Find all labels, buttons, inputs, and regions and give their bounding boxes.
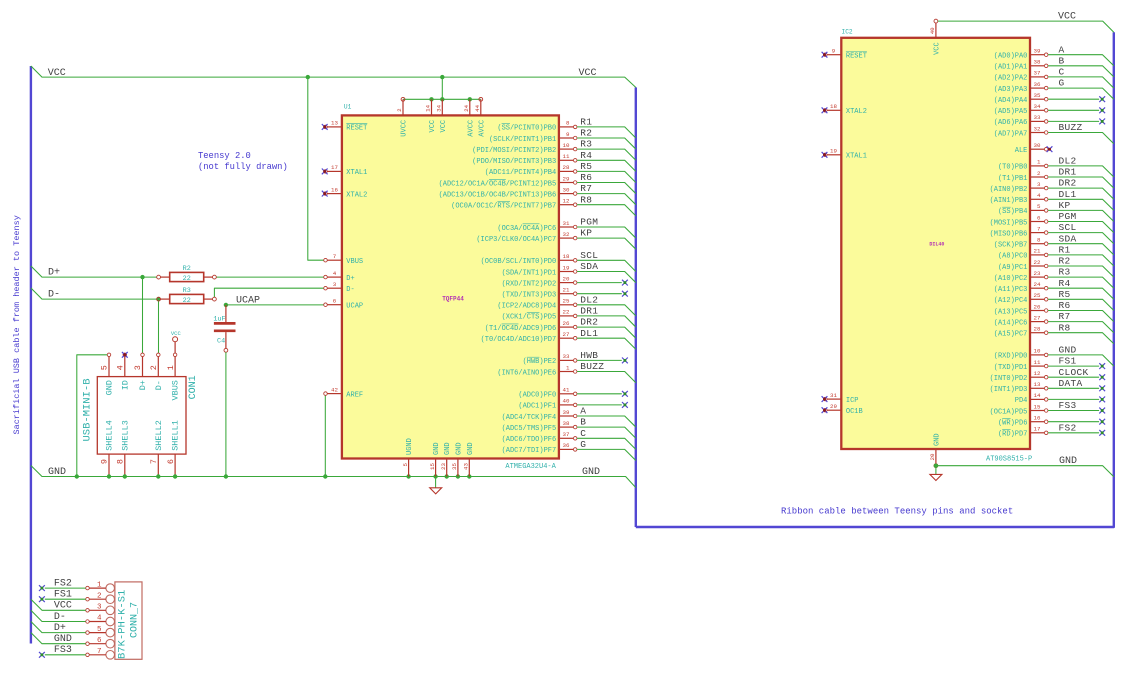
svg-text:VCC: VCC (933, 42, 941, 55)
svg-text:39: 39 (1034, 48, 1041, 55)
U1 pin 7 VBUS (327, 259, 342, 261)
wire net SDA from IC2 pin 8 to cable (1048, 244, 1114, 255)
wire net R1 from U1 pin 8 to cable (577, 127, 636, 138)
IC2 pin 1 (T0)PB0 (1030, 165, 1044, 167)
svg-text:6: 6 (1037, 214, 1041, 221)
IC2 pin 37 (AD2)PA2 (1030, 76, 1044, 78)
no-connect wire from U1 pin 40 (577, 404, 622, 406)
svg-text:36: 36 (563, 442, 570, 449)
svg-text:G: G (1059, 78, 1065, 89)
U1 pin 13 RESET (327, 126, 342, 128)
svg-text:7: 7 (1037, 225, 1041, 232)
svg-text:8: 8 (566, 120, 570, 127)
U1 pin 1 (INT6/AINO)PE6 (559, 371, 573, 373)
wire net BUZZ from U1 pin 1 to cable (577, 372, 636, 383)
svg-text:(SS/PCINT0)PB0: (SS/PCINT0)PB0 (497, 125, 556, 133)
wire net SCL from U1 pin 18 to cable (577, 260, 636, 271)
wire net R4 from U1 pin 11 to cable (577, 160, 636, 171)
svg-text:(ADC5/TMS)PF5: (ADC5/TMS)PF5 (502, 425, 557, 433)
IC2 pin 32 (AD7)PA7 (1030, 132, 1044, 134)
svg-text:FS3: FS3 (1059, 400, 1077, 411)
svg-text:OC1B: OC1B (846, 408, 863, 416)
svg-text:23: 23 (1034, 270, 1041, 277)
svg-text:AT90S8515-P: AT90S8515-P (986, 456, 1032, 464)
no-connect wire from IC2 pin 35 (1048, 98, 1099, 100)
svg-text:2: 2 (149, 365, 159, 370)
IC2 pin 27 (A14)PC6 (1030, 321, 1044, 323)
wire net KP from IC2 pin 5 to cable (1048, 210, 1114, 221)
svg-text:D+: D+ (346, 275, 354, 283)
svg-text:DR2: DR2 (1059, 178, 1077, 189)
wire GND bus (31, 466, 636, 488)
svg-text:VCC: VCC (48, 68, 66, 79)
svg-text:42: 42 (331, 386, 338, 393)
wire net R2 from U1 pin 9 to cable (577, 138, 636, 149)
U1 pin 39 (ADC4/TCK)PF4 (559, 415, 573, 417)
svg-text:D+: D+ (48, 268, 60, 279)
IC2 pin 18 XTAL2 (827, 109, 841, 111)
svg-text:22: 22 (563, 309, 570, 316)
IC2 pin 9 RESET (827, 54, 841, 56)
svg-text:(ADC11/PCINT4)PB4: (ADC11/PCINT4)PB4 (485, 169, 556, 177)
svg-text:35: 35 (1034, 92, 1041, 99)
svg-text:33: 33 (1034, 114, 1041, 121)
svg-text:FS1: FS1 (1059, 356, 1077, 367)
svg-text:R1: R1 (1059, 245, 1071, 256)
svg-text:(HWB)PE2: (HWB)PE2 (523, 358, 557, 366)
svg-text:(A11)PC3: (A11)PC3 (994, 286, 1028, 294)
svg-text:AREF: AREF (346, 391, 363, 399)
svg-text:29: 29 (830, 403, 837, 410)
svg-text:30: 30 (1034, 142, 1041, 149)
svg-text:37: 37 (1034, 70, 1041, 77)
svg-text:10: 10 (563, 142, 570, 149)
svg-text:14: 14 (425, 104, 432, 111)
svg-text:22: 22 (1034, 259, 1041, 266)
svg-text:TQFP44: TQFP44 (442, 296, 464, 303)
svg-text:VCC: VCC (54, 601, 72, 612)
svg-text:(OC1A)PD5: (OC1A)PD5 (990, 408, 1028, 416)
no-connect wire from U1 pin 33 (577, 359, 622, 361)
svg-text:UVCC: UVCC (401, 120, 409, 137)
svg-text:PGM: PGM (580, 217, 598, 228)
svg-text:FS2: FS2 (54, 579, 72, 590)
CONN_7 pin 6 GND (106, 639, 115, 648)
no-connect wire from U1 pin 41 (577, 393, 622, 395)
svg-text:DL2: DL2 (580, 294, 598, 305)
CONN_7 pin 2 FS1 (106, 595, 115, 604)
U1 pin 2 UVCC (top) (402, 99, 404, 115)
wire net DL2 from U1 pin 25 to cable (577, 305, 636, 316)
svg-text:DR2: DR2 (580, 317, 598, 328)
ground symbol below IC2 (935, 466, 937, 475)
IC2 pin 12 (INT0)PD2 (1030, 376, 1044, 378)
svg-text:9: 9 (832, 48, 836, 55)
wire net R2 from IC2 pin 22 to cable (1048, 266, 1114, 277)
svg-text:(SDA/INT1)PD1: (SDA/INT1)PD1 (502, 269, 557, 277)
svg-text:VBUS: VBUS (346, 258, 363, 266)
svg-text:IC2: IC2 (842, 29, 853, 36)
IC2 pin 2 (T1)PB1 (1030, 176, 1044, 178)
svg-text:(ADC7/TDI)PF7: (ADC7/TDI)PF7 (502, 447, 557, 455)
svg-text:A: A (580, 406, 586, 417)
svg-text:17: 17 (1034, 426, 1041, 433)
svg-text:27: 27 (563, 331, 570, 338)
IC2 pin 17 (RD)PD7 (1030, 432, 1044, 434)
wire net DR1 from IC2 pin 2 to cable (1048, 177, 1114, 188)
svg-text:R4: R4 (580, 150, 592, 161)
svg-text:R6: R6 (580, 172, 592, 183)
svg-text:(ADC12/OC1A/OC4B/PCINT12)PB5: (ADC12/OC1A/OC4B/PCINT12)PB5 (439, 180, 557, 188)
svg-text:R3: R3 (183, 287, 191, 295)
junction on VCC wire (440, 75, 444, 79)
wire net R8 from IC2 pin 28 to cable (1048, 333, 1114, 344)
svg-text:R7: R7 (1059, 311, 1071, 322)
svg-text:40: 40 (563, 398, 570, 405)
svg-text:UCAP: UCAP (346, 303, 363, 311)
svg-text:R8: R8 (580, 194, 592, 205)
CON1 pin 5 GND (108, 357, 110, 377)
wire GND from IC2 pin 20 to cable (938, 466, 1114, 477)
wire net KP from U1 pin 32 to cable (577, 238, 636, 249)
svg-text:(WR)PD6: (WR)PD6 (998, 420, 1027, 428)
IC2 pin 30 ALE (1030, 148, 1044, 150)
no-connect wire from IC2 pin 14 (1048, 398, 1099, 400)
svg-text:DL1: DL1 (580, 328, 598, 339)
svg-text:3: 3 (333, 281, 337, 288)
svg-text:24: 24 (1034, 281, 1041, 288)
IC2 pin 33 (AD6)PA6 (1030, 120, 1044, 122)
U1 pin 26 (T1/OC4D/ADC9)PD6 (559, 326, 573, 328)
svg-text:7: 7 (97, 648, 102, 656)
svg-text:USB-MINI-B: USB-MINI-B (81, 378, 93, 441)
svg-text:A: A (1059, 44, 1065, 55)
svg-text:(SS)PB4: (SS)PB4 (998, 208, 1027, 216)
IC2 pin 11 (TXD)PD1 (1030, 365, 1044, 367)
wire USB pin5 GND to bus (77, 355, 107, 477)
svg-text:D-: D- (154, 380, 164, 390)
U1 pin 21 (TXD/INT3)PD3 (559, 293, 573, 295)
svg-text:CONN_7: CONN_7 (130, 602, 141, 638)
svg-text:(RXD)PD0: (RXD)PD0 (994, 353, 1028, 361)
svg-text:XTAL2: XTAL2 (346, 191, 367, 199)
U1 pin 37 (ADC6/TDO)PF6 (559, 437, 573, 439)
IC2 pin 23 (A10)PC2 (1030, 276, 1044, 278)
no-connect wire from IC2 pin 12 (1048, 376, 1099, 378)
svg-text:KP: KP (580, 228, 592, 239)
svg-text:(AD4)PA4: (AD4)PA4 (994, 97, 1028, 105)
U1 pin 25 (ICP2/ADC8)PD4 (559, 304, 573, 306)
svg-text:5: 5 (97, 626, 102, 634)
svg-text:R5: R5 (1059, 289, 1071, 300)
wire VCC from cable to U1 (31, 66, 636, 87)
svg-text:(ICP2/ADC8)PD4: (ICP2/ADC8)PD4 (497, 303, 556, 311)
svg-text:(T1)PB1: (T1)PB1 (998, 175, 1027, 183)
CON1 pin 2 D- (157, 357, 159, 377)
svg-text:22: 22 (183, 275, 191, 283)
svg-text:PGM: PGM (1059, 211, 1077, 222)
svg-text:KP: KP (1059, 200, 1071, 211)
IC2 pin 21 (A8)PC0 (1030, 254, 1044, 256)
no-connect wire from IC2 pin 16 (1048, 421, 1099, 423)
IC2 pin 22 (A9)PC1 (1030, 265, 1044, 267)
IC2 pin 28 (A15)PC7 (1030, 332, 1044, 334)
svg-text:UGND: UGND (406, 438, 414, 455)
svg-text:(ADC13/OC1B/OC4B/PCINT13)PB6: (ADC13/OC1B/OC4B/PCINT13)PB6 (439, 191, 557, 199)
wire net R7 from IC2 pin 27 to cable (1048, 322, 1114, 333)
CONN_7 pin 4 D- (106, 617, 115, 626)
svg-text:GND: GND (433, 442, 441, 455)
svg-text:(A10)PC2: (A10)PC2 (994, 275, 1028, 283)
pin end circles U1 power pins 2 and 44 (401, 97, 405, 101)
svg-text:21: 21 (563, 287, 570, 294)
svg-text:20: 20 (563, 275, 570, 282)
sheet box: ribbon cable between Teensy and socket (636, 32, 1114, 527)
IC2 pin 7 (MISO)PB6 (1030, 232, 1044, 234)
U1 pin 5 UGND (bottom) (408, 459, 410, 477)
svg-text:28: 28 (563, 164, 570, 171)
svg-text:(AD2)PA2: (AD2)PA2 (994, 75, 1028, 83)
svg-text:R4: R4 (1059, 278, 1071, 289)
junction UCAP / C4 (224, 303, 228, 307)
svg-text:(ADC0)PF0: (ADC0)PF0 (518, 392, 556, 400)
svg-text:20: 20 (929, 453, 936, 460)
U1 pin 34 VCC (top) (441, 99, 443, 115)
svg-text:D-: D- (54, 612, 66, 623)
wire D+ to CONN_7 pin 5 (31, 622, 86, 633)
svg-text:15: 15 (429, 462, 436, 469)
wire FS2 to CONN_7 pin 1 (45, 587, 86, 589)
svg-text:ICP: ICP (846, 397, 859, 405)
wire D+ net (31, 266, 157, 277)
wire VCC from IC2 pin 40 to cable (938, 21, 1114, 32)
svg-text:9: 9 (566, 131, 570, 138)
svg-text:8: 8 (116, 459, 126, 464)
svg-text:R2: R2 (580, 128, 592, 139)
svg-text:B: B (580, 417, 586, 428)
svg-text:VCC: VCC (1058, 12, 1076, 23)
svg-text:26: 26 (1034, 303, 1041, 310)
wire VCC to CONN_7 pin 3 (31, 599, 86, 610)
svg-text:31: 31 (830, 392, 837, 399)
U1 pin 30 (ADC13/OC1B/OC4B/PCINT13)PB6 (559, 193, 573, 195)
wire R3 output to U1 pin 3 (214, 288, 323, 297)
CONN_7 pin 7 FS3 (106, 651, 115, 660)
connector CON1 USB-MINI-B (97, 377, 186, 455)
wire R2 output to U1 pin 4 (216, 276, 323, 278)
svg-text:19: 19 (563, 264, 570, 271)
svg-text:BUZZ: BUZZ (580, 361, 604, 372)
CON1 pin 4 ID (124, 357, 126, 377)
svg-text:RESET: RESET (846, 53, 867, 61)
svg-text:13: 13 (1034, 381, 1041, 388)
svg-text:18: 18 (830, 103, 837, 110)
svg-text:34: 34 (436, 104, 443, 111)
svg-text:9: 9 (100, 459, 110, 464)
wire net G from IC2 pin 36 to cable (1048, 88, 1114, 99)
svg-text:(AD6)PA6: (AD6)PA6 (994, 119, 1028, 127)
svg-text:3: 3 (133, 365, 143, 370)
junction D+ to USB pin3 (140, 275, 144, 279)
svg-text:GND: GND (54, 634, 72, 645)
svg-text:6: 6 (166, 459, 176, 464)
svg-text:44: 44 (474, 104, 481, 111)
svg-text:ID: ID (120, 380, 130, 390)
U1 pin 9 (SCLK/PCINT1)PB1 (559, 137, 573, 139)
svg-text:VCC: VCC (440, 120, 448, 133)
IC2 pin 5 (SS)PB4 (1030, 209, 1044, 211)
wire net R8 from U1 pin 12 to cable (577, 205, 636, 216)
svg-text:VBUS: VBUS (171, 380, 181, 400)
svg-text:(A14)PC6: (A14)PC6 (994, 319, 1028, 327)
svg-text:(SCK)PB7: (SCK)PB7 (994, 242, 1028, 250)
svg-text:C4: C4 (217, 337, 225, 345)
svg-text:D+: D+ (54, 623, 66, 634)
power symbol VCC at USB VBUS (173, 337, 178, 342)
svg-text:GND: GND (467, 442, 475, 455)
junction VCC/VBUS drop (306, 75, 310, 79)
svg-text:DR1: DR1 (1059, 167, 1077, 178)
wire net DL2 from IC2 pin 1 to cable (1048, 166, 1114, 177)
svg-text:37: 37 (563, 431, 570, 438)
svg-text:(MISO)PB6: (MISO)PB6 (990, 230, 1028, 238)
svg-text:GND: GND (1059, 345, 1077, 356)
U1 pin 12 (OC0A/OC1C/RTS/PCINT7)PB7 (559, 204, 573, 206)
svg-text:DATA: DATA (1059, 378, 1083, 389)
svg-text:U1: U1 (344, 104, 352, 111)
wire net R4 from IC2 pin 24 to cable (1048, 288, 1114, 299)
U1 pin 43 GND (bottom) (468, 459, 470, 477)
svg-text:1uF: 1uF (213, 315, 225, 323)
svg-text:1: 1 (166, 365, 176, 370)
wire net R1 from IC2 pin 21 to cable (1048, 255, 1114, 266)
wire net DR2 from IC2 pin 3 to cable (1048, 188, 1114, 199)
svg-text:VCC: VCC (429, 120, 437, 133)
IC2 pin 16 (WR)PD6 (1030, 421, 1044, 423)
svg-text:BUZZ: BUZZ (1059, 122, 1083, 133)
IC2 pin 14 PD4 (1030, 398, 1044, 400)
svg-text:(MOSI)PB5: (MOSI)PB5 (990, 219, 1028, 227)
svg-text:2: 2 (97, 592, 102, 600)
svg-text:XTAL1: XTAL1 (846, 153, 867, 161)
op-amp U1 body ATMEGA32U4-A (342, 115, 559, 458)
svg-text:14: 14 (1034, 392, 1041, 399)
svg-text:(AIN0)PB2: (AIN0)PB2 (990, 186, 1028, 194)
U1 pin 32 (ICP3/CLK0/OC4A)PC7 (559, 237, 573, 239)
U1 pin 20 (RXD/INT2)PD2 (559, 282, 573, 284)
svg-text:2: 2 (1037, 170, 1041, 177)
svg-text:VCC: VCC (171, 330, 182, 337)
svg-text:D-: D- (48, 290, 60, 301)
svg-text:R7: R7 (580, 183, 592, 194)
svg-text:RESET: RESET (346, 125, 367, 133)
svg-text:4: 4 (1037, 192, 1041, 199)
svg-text:SHELL1: SHELL1 (171, 420, 181, 451)
svg-text:R2: R2 (1059, 256, 1071, 267)
svg-text:(A9)PC1: (A9)PC1 (998, 264, 1027, 272)
IC2 pin 31 ICP (827, 398, 841, 400)
wire net PGM from U1 pin 31 to cable (577, 227, 636, 238)
CONN_7 pin 5 D+ (106, 628, 115, 637)
svg-text:G: G (580, 439, 586, 450)
svg-text:13: 13 (331, 120, 338, 127)
svg-text:17: 17 (331, 164, 338, 171)
wire U1 power pin rail (403, 98, 481, 100)
svg-text:R6: R6 (1059, 300, 1071, 311)
svg-text:PD4: PD4 (1015, 397, 1028, 405)
svg-text:5: 5 (100, 365, 110, 370)
svg-text:(TXD/INT3)PD3: (TXD/INT3)PD3 (502, 292, 557, 300)
svg-text:39: 39 (563, 409, 570, 416)
wire UCAP net (226, 304, 324, 306)
wire net R7 from U1 pin 30 to cable (577, 194, 636, 205)
IC2 pin 8 (SCK)PB7 (1030, 243, 1044, 245)
wire VCC drop to U1 power pins (441, 77, 443, 99)
svg-text:GND: GND (582, 467, 600, 478)
IC2 pin 13 (INT1)PD3 (1030, 387, 1044, 389)
svg-text:(PDI/MOSI/PCINT2)PB2: (PDI/MOSI/PCINT2)PB2 (472, 147, 556, 155)
svg-text:FS3: FS3 (54, 645, 72, 656)
svg-text:Sacrificial USB cable from hea: Sacrificial USB cable from header to Tee… (12, 215, 22, 434)
svg-text:SDA: SDA (1059, 233, 1077, 244)
svg-text:VCC: VCC (579, 68, 597, 79)
svg-text:C: C (1059, 67, 1065, 78)
svg-text:(ADC1)PF1: (ADC1)PF1 (518, 403, 556, 411)
svg-text:(ICP3/CLK0/OC4A)PC7: (ICP3/CLK0/OC4A)PC7 (476, 236, 556, 244)
IC2 pin 4 (AIN1)PB3 (1030, 198, 1044, 200)
CON1 pin 6 SHELL1 (174, 454, 176, 476)
U1 pin 8 (SS/PCINT0)PB0 (559, 126, 573, 128)
CON1 pin 8 SHELL3 (124, 454, 126, 476)
svg-text:UCAP: UCAP (236, 295, 260, 306)
svg-text:(PDO/MISO/PCINT3)PB3: (PDO/MISO/PCINT3)PB3 (472, 158, 556, 166)
U1 pin 4 D+ (327, 276, 342, 278)
svg-text:(AD7)PA7: (AD7)PA7 (994, 130, 1028, 138)
svg-text:CLOCK: CLOCK (1059, 367, 1089, 378)
wire net R6 from IC2 pin 26 to cable (1048, 311, 1114, 322)
U1 pin 40 (ADC1)PF1 (559, 404, 573, 406)
svg-text:8: 8 (1037, 237, 1041, 244)
U1 pin 31 (OC3A/OC4A)PC6 (559, 226, 573, 228)
wire AREF to GND bus (324, 396, 326, 477)
svg-text:SDA: SDA (580, 261, 598, 272)
IC2 pin 26 (A13)PC5 (1030, 310, 1044, 312)
svg-text:23: 23 (440, 462, 447, 469)
U1 pin 19 (SDA/INT1)PD1 (559, 271, 573, 273)
wire net SDA from U1 pin 19 to cable (577, 272, 636, 283)
svg-text:B7K-PH-K-S1: B7K-PH-K-S1 (117, 590, 129, 659)
svg-text:32: 32 (1034, 125, 1041, 132)
svg-text:36: 36 (1034, 81, 1041, 88)
U1 pin 44 AVCC (top) (480, 99, 482, 115)
U1 pin 18 (OC0B/SCL/INT0)PD0 (559, 259, 573, 261)
wire net BUZZ from IC2 pin 32 to cable (1048, 133, 1114, 144)
svg-text:Ribbon cable between Teensy pi: Ribbon cable between Teensy pins and soc… (781, 507, 1013, 517)
svg-text:(XCK1/CTS)PD5: (XCK1/CTS)PD5 (502, 314, 557, 322)
wire net A from U1 pin 39 to cable (577, 416, 636, 427)
svg-text:DR1: DR1 (580, 306, 598, 317)
U1 pin 24 AVCC (top) (469, 99, 471, 115)
wire net R5 from IC2 pin 25 to cable (1048, 299, 1114, 310)
junction at IC2 GND pin (934, 464, 938, 468)
svg-text:D-: D- (346, 286, 354, 294)
U1 pin 33 (HWB)PE2 (559, 359, 573, 361)
svg-text:11: 11 (563, 153, 570, 160)
wire net DR1 from U1 pin 22 to cable (577, 316, 636, 327)
U1 pin 42 AREF (327, 393, 342, 395)
svg-text:AVCC: AVCC (478, 120, 486, 137)
wire net R6 from U1 pin 29 to cable (577, 183, 636, 194)
